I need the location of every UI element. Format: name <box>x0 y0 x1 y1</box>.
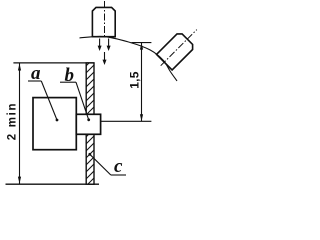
tilted tool body <box>157 34 193 70</box>
label b leader dot <box>87 118 90 121</box>
component box a <box>33 98 76 150</box>
terminal b through wall <box>76 114 100 134</box>
tilted tool centerline <box>161 30 197 66</box>
wall lower section <box>80 123 100 192</box>
dimension 1,5 top extension tick <box>132 42 152 44</box>
svg-text:1,5: 1,5 <box>127 71 141 89</box>
dimension 1,5 arrow up <box>140 43 143 50</box>
label a leader dot <box>56 119 59 122</box>
dimension 2 min line <box>19 64 21 184</box>
curved surface arc <box>80 36 178 81</box>
dimension 2 min arrow down <box>18 177 21 184</box>
wall upper section <box>80 52 100 121</box>
enclosure bottom line <box>6 183 100 185</box>
svg-text:b: b <box>65 65 75 86</box>
extension line from part b <box>101 120 152 122</box>
dimension 1,5 arrow down <box>140 114 143 121</box>
label c leader <box>90 154 111 175</box>
label b underline <box>60 81 76 83</box>
dimension 1,5 line <box>141 43 143 122</box>
label a leader <box>41 81 57 120</box>
top extension line <box>13 62 94 64</box>
label c leader dot <box>88 153 91 156</box>
arrow down right <box>107 39 111 52</box>
label a underline <box>28 80 41 82</box>
label c underline <box>111 174 126 176</box>
svg-text:c: c <box>114 156 123 177</box>
soldering tool tip body <box>92 7 115 36</box>
arrow down center <box>103 52 107 65</box>
svg-text:2 min: 2 min <box>7 102 19 141</box>
soldering tool centerline <box>104 1 106 37</box>
label b leader <box>76 82 89 120</box>
dimension 2 min arrow up <box>18 64 21 71</box>
arrow down left <box>98 39 102 52</box>
